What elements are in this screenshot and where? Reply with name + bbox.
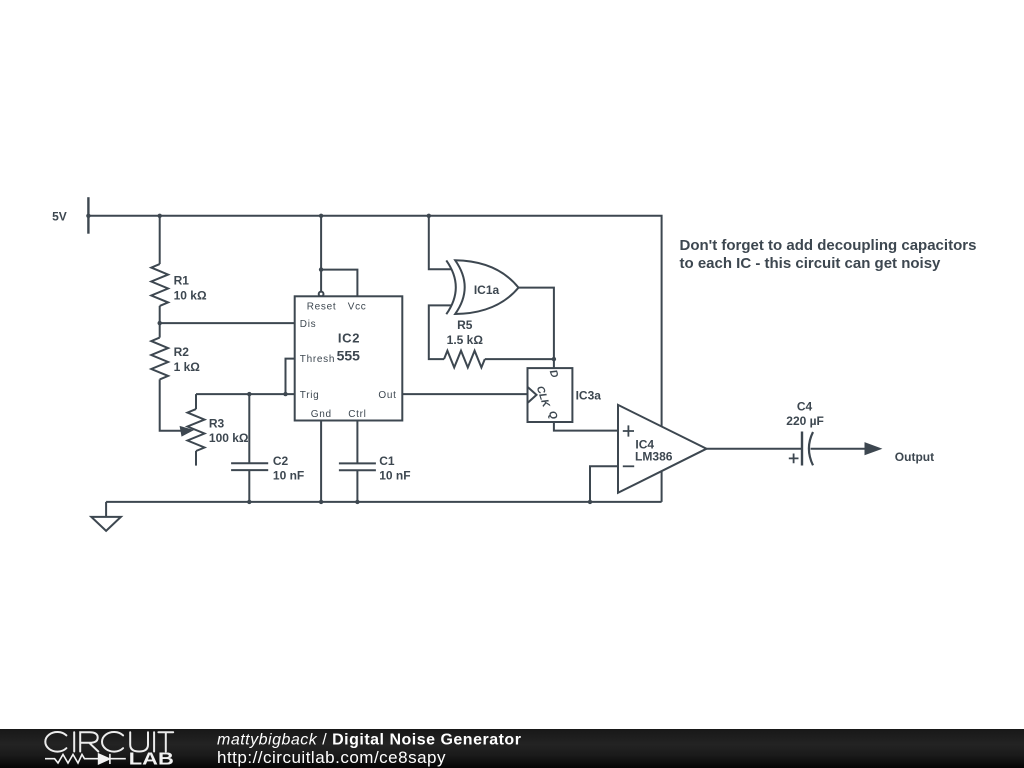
logo resistor-diode glyph xyxy=(45,754,126,764)
capacitor C4 curved plate xyxy=(809,432,813,465)
capacitor C4 straight plate xyxy=(801,432,803,466)
footer bar xyxy=(0,729,1024,768)
wire: drop to ground symbol xyxy=(105,502,107,517)
op-amp IC4 triangle xyxy=(618,405,707,493)
wire: Thresh tie to Trig xyxy=(286,359,295,395)
wire: R3 bottom stub xyxy=(195,451,197,466)
wire: R2 bottom down and right to R3 wiper xyxy=(160,379,181,430)
wire: 555 Out to IC3a CLK xyxy=(402,393,527,395)
plus marking of IC4 xyxy=(623,425,634,436)
power terminal 5V bar xyxy=(87,197,89,234)
svg-text:http://circuitlab.com/ce8sapy: http://circuitlab.com/ce8sapy xyxy=(217,748,446,767)
junction dots xyxy=(86,214,90,218)
wiper arrow of R3 xyxy=(180,427,193,436)
clock wedge of IC3a xyxy=(528,387,537,403)
resistor R2 xyxy=(151,338,168,380)
wire: Dis pin to R1/R2 junction xyxy=(160,322,295,324)
wire: R1 bottom to R2 top xyxy=(159,306,161,338)
wire: R3 top lead xyxy=(195,394,197,409)
wire: rail down to Reset/Vcc junction xyxy=(320,216,322,270)
logo CIRCUIT outline lettering xyxy=(45,732,173,752)
wire: 5V top rail with right-side drop xyxy=(88,216,661,502)
wire: Q output to op-amp + input xyxy=(554,422,618,431)
xor gate IC1a input arc xyxy=(446,260,456,314)
svg-text:mattybigback / Digital Noise G: mattybigback / Digital Noise Generator xyxy=(217,732,521,749)
wire: rail to R1 top lead xyxy=(159,216,161,264)
wire: C1 bottom lead xyxy=(356,470,358,502)
wire: op-amp output to C4 xyxy=(707,448,803,450)
xor gate IC1a body xyxy=(455,260,518,314)
Reset pin bubble xyxy=(319,292,324,297)
resistor R5 xyxy=(444,351,485,368)
ground symbol xyxy=(91,517,121,531)
wire: inverting input feedback to ground rail xyxy=(590,466,618,502)
IC2 555 timer box xyxy=(295,296,403,420)
svg-text:LAB: LAB xyxy=(129,749,174,768)
wire: C2 bottom lead xyxy=(248,470,250,502)
capacitor C2 xyxy=(231,463,268,470)
wire: XOR bottom input down to R5 xyxy=(429,305,452,359)
wire: rail down to XOR top input xyxy=(429,216,452,269)
wire: C2 top lead xyxy=(248,394,250,463)
wire: ground bottom rail xyxy=(106,501,662,503)
plus marking of C4 xyxy=(789,454,799,464)
wire: C4 to output arrow xyxy=(811,448,867,450)
wire: R5 right lead to D node xyxy=(485,358,554,360)
resistor R1 xyxy=(151,264,168,306)
wire: Reset/Vcc tie xyxy=(321,270,357,297)
flip-flop IC3a box xyxy=(528,368,573,422)
capacitor C1 xyxy=(339,463,376,470)
minus marking of IC4 xyxy=(623,465,634,467)
wire: XOR output to D input xyxy=(519,288,554,369)
potentiometer R3 body xyxy=(188,409,205,451)
wire: Ctrl pin down to C1 xyxy=(356,421,358,464)
wire: Gnd pin down to rail xyxy=(320,421,322,502)
wire: Trig horizontal run xyxy=(196,393,295,395)
output arrowhead xyxy=(866,444,880,454)
